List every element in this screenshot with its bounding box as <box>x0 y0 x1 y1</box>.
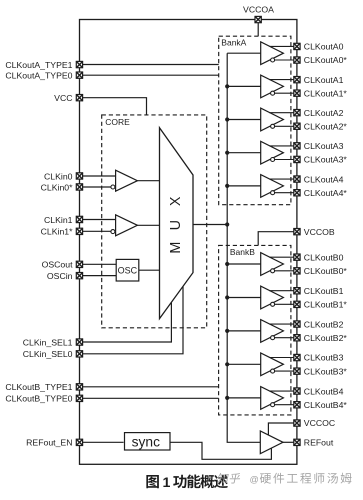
svg-text:CLKoutB4*: CLKoutB4* <box>304 400 348 410</box>
wire A0 inverted output <box>275 59 294 61</box>
svg-text:CLKoutB0: CLKoutB0 <box>304 252 344 262</box>
pin CLKin0* <box>76 184 82 190</box>
junction tap B3 <box>225 362 229 366</box>
wire OSCout <box>80 263 117 265</box>
svg-text:VCCOC: VCCOC <box>304 418 335 428</box>
inverting bubble A0* <box>271 58 275 62</box>
svg-text:REFout: REFout <box>304 438 334 448</box>
BankA block (dashed) <box>219 36 291 205</box>
wire VCCOB to BankB <box>258 232 294 246</box>
wire VCCOA to BankA <box>257 23 259 37</box>
svg-text:CLKoutA0: CLKoutA0 <box>304 42 344 52</box>
pin REFout_EN <box>76 439 82 445</box>
pin CLKin_SEL0 <box>76 351 82 357</box>
pin CLKoutA0* <box>294 57 300 63</box>
svg-text:X: X <box>168 196 184 206</box>
wire input tap buffer A3 <box>227 152 261 154</box>
wire CLKin0 <box>80 175 116 177</box>
CORE block (dashed) <box>102 115 207 328</box>
wire OSC out to MUX <box>139 269 160 271</box>
caption: 图 1 功能概述 <box>146 474 227 490</box>
inverting bubble A4* <box>271 191 275 195</box>
svg-text:CLKoutB0*: CLKoutB0* <box>304 266 348 276</box>
svg-text:CLKoutB1*: CLKoutB1* <box>304 300 348 310</box>
pin OSCout <box>76 261 82 267</box>
wire A4 inverted output <box>275 192 294 194</box>
svg-text:CLKoutA1*: CLKoutA1* <box>304 88 348 98</box>
pin CLKoutA1 <box>294 77 300 83</box>
svg-text:CLKoutB2: CLKoutB2 <box>304 319 344 329</box>
svg-text:CLKoutA3*: CLKoutA3* <box>304 155 348 165</box>
wire input tap buffer B0 <box>227 263 261 265</box>
output buffer B0 <box>261 253 284 276</box>
wire CLKoutB_TYPE1 to BankB <box>80 386 219 388</box>
pin CLKoutB3* <box>294 368 300 374</box>
svg-text:BankB: BankB <box>230 247 255 257</box>
svg-text:CLKoutB1: CLKoutB1 <box>304 286 344 296</box>
wire REFout buffer to pin <box>283 441 294 443</box>
svg-text:OSC: OSC <box>118 266 138 276</box>
output buffer A4 <box>261 175 284 198</box>
pin REFout <box>294 439 300 445</box>
output buffer A0 <box>261 42 284 65</box>
inverting bubble CLKin1* <box>111 230 115 234</box>
inverting bubble CLKin0* <box>111 185 115 189</box>
svg-text:CLKoutA4*: CLKoutA4* <box>304 188 348 198</box>
svg-text:VCCOA: VCCOA <box>243 4 274 14</box>
svg-text:OSCin: OSCin <box>47 271 73 281</box>
wire input tap buffer B3 <box>227 363 261 365</box>
junction tap A4 <box>225 184 229 188</box>
svg-text:U: U <box>168 220 184 230</box>
pin CLKoutB0 <box>294 254 300 260</box>
wire input tap buffer A4 <box>227 185 261 187</box>
wire VCCOC to REFout buffer <box>268 423 293 435</box>
svg-text:CLKin_SEL0: CLKin_SEL0 <box>23 349 73 359</box>
svg-text:CLKin1*: CLKin1* <box>41 227 73 237</box>
wire CLKin1* <box>80 230 112 232</box>
pin CLKoutB_TYPE0 <box>76 395 82 401</box>
wire A0 true output <box>269 45 293 47</box>
svg-text:CLKin0*: CLKin0* <box>41 182 73 192</box>
svg-text:CLKoutA2: CLKoutA2 <box>304 108 344 118</box>
pin CLKoutB0* <box>294 268 300 274</box>
output buffer B1 <box>261 286 284 309</box>
sync block <box>125 433 171 450</box>
pin CLKoutB1 <box>294 288 300 294</box>
svg-text:CLKoutB2*: CLKoutB2* <box>304 333 348 343</box>
junction tap B4 <box>225 396 229 400</box>
inverting bubble A3* <box>271 158 275 162</box>
wire input tap buffer A1 <box>227 85 261 87</box>
pin CLKin1* <box>76 228 82 234</box>
svg-text:REFout_EN: REFout_EN <box>26 438 72 448</box>
svg-text:M: M <box>168 242 184 254</box>
pin CLKin_SEL1 <box>76 339 82 345</box>
pin CLKoutA4 <box>294 176 300 182</box>
svg-text:CLKin_SEL1: CLKin_SEL1 <box>23 337 73 347</box>
inverting bubble A1* <box>271 91 275 95</box>
junction tap B0 <box>225 262 229 266</box>
output buffer A1 <box>261 75 284 98</box>
pin CLKoutA2 <box>294 110 300 116</box>
wire B3 inverted output <box>275 370 294 372</box>
wire VCC to CORE <box>80 98 147 115</box>
wire buffer1 out to MUX <box>137 224 159 226</box>
wire input tap buffer A2 <box>227 119 261 121</box>
wire A1 true output <box>269 79 293 81</box>
svg-text:1: 1 <box>163 475 171 491</box>
output buffer B3 <box>261 353 284 376</box>
BankB block (dashed) <box>219 245 291 415</box>
output buffer B4 <box>261 387 284 410</box>
output buffer B2 <box>261 320 284 343</box>
pin CLKoutB1* <box>294 301 300 307</box>
wire REFout_EN to sync <box>80 441 124 443</box>
wire CLKin1 <box>80 219 116 221</box>
pin VCCOC <box>294 420 300 426</box>
svg-text:CLKoutB_TYPE1: CLKoutB_TYPE1 <box>5 382 72 392</box>
wire A2 inverted output <box>275 125 294 127</box>
inverting bubble A2* <box>271 124 275 128</box>
wire B0 true output <box>269 256 293 258</box>
wire A4 true output <box>269 178 293 180</box>
wire B2 true output <box>269 323 293 325</box>
wire CLKin_SEL1 to MUX <box>80 302 172 342</box>
inverting bubble B1* <box>271 302 275 306</box>
junction tap B2 <box>225 329 229 333</box>
wire input tap buffer A0 <box>227 52 261 54</box>
junction tap B1 <box>225 295 229 299</box>
svg-text:VCC: VCC <box>54 93 72 103</box>
wire A3 true output <box>269 145 293 147</box>
output buffer A2 <box>261 108 284 131</box>
wire CLKoutA_TYPE1 to BankA <box>80 64 219 66</box>
wire CLKin_SEL0 to MUX <box>80 286 184 353</box>
wire B2 inverted output <box>275 337 294 339</box>
svg-text:CLKoutB3: CLKoutB3 <box>304 353 344 363</box>
wire CLKoutA_TYPE0 to BankA <box>80 74 219 76</box>
inverting bubble B4* <box>271 403 275 407</box>
wire B0 inverted output <box>275 270 294 272</box>
pin VCCOA <box>255 16 261 22</box>
svg-text:CLKoutA0*: CLKoutA0* <box>304 55 348 65</box>
junction MUX output <box>225 222 229 226</box>
svg-text:CLKin0: CLKin0 <box>44 171 73 181</box>
svg-text:CLKoutB_TYPE0: CLKoutB_TYPE0 <box>5 394 72 404</box>
watermark: 知乎 @硬件工程师汤姆 <box>217 473 352 485</box>
wire CLKoutB_TYPE0 to BankB <box>80 397 219 399</box>
svg-text:OSCout: OSCout <box>42 260 73 270</box>
pin CLKoutA2* <box>294 123 300 129</box>
output buffer A3 <box>261 141 284 164</box>
wire B4 true output <box>269 390 293 392</box>
svg-text:CLKoutA1: CLKoutA1 <box>304 75 344 85</box>
wire OSCin <box>80 275 117 277</box>
wire input tap buffer B4 <box>227 397 261 399</box>
wire CLKin0* <box>80 186 112 188</box>
wire B1 true output <box>269 290 293 292</box>
svg-text:CORE: CORE <box>105 117 130 127</box>
pin CLKoutA1* <box>294 90 300 96</box>
wire B3 true output <box>269 357 293 359</box>
svg-text:CLKoutA_TYPE1: CLKoutA_TYPE1 <box>5 60 72 70</box>
svg-text:CLKoutB4: CLKoutB4 <box>304 386 344 396</box>
pin CLKoutA4* <box>294 190 300 196</box>
input buffer CLKin0 <box>116 170 138 191</box>
inverting bubble B2* <box>271 336 275 340</box>
svg-text:CLKin1: CLKin1 <box>44 215 73 225</box>
pin CLKin1 <box>76 216 82 222</box>
OSC block <box>116 259 139 281</box>
inverting bubble B0* <box>271 269 275 273</box>
svg-text:CLKoutA3: CLKoutA3 <box>304 141 344 151</box>
pin CLKoutA3 <box>294 143 300 149</box>
junction tap A2 <box>225 117 229 121</box>
wire A2 true output <box>269 112 293 114</box>
svg-text:CLKoutA2*: CLKoutA2* <box>304 122 348 132</box>
svg-text:VCCOB: VCCOB <box>304 227 335 237</box>
wire clock distribution bus <box>227 53 260 442</box>
REFout buffer <box>260 431 283 454</box>
input buffer CLKin1 <box>116 215 138 236</box>
pin CLKoutA0 <box>294 43 300 49</box>
pin VCCOB <box>294 229 300 235</box>
svg-text:BankA: BankA <box>221 38 246 48</box>
wire A1 inverted output <box>275 92 294 94</box>
pin CLKoutB2* <box>294 335 300 341</box>
pin VCC <box>76 95 82 101</box>
junction tap A1 <box>225 84 229 88</box>
wire input tap buffer B1 <box>227 297 261 299</box>
pin OSCin <box>76 273 82 279</box>
chip outline <box>80 20 297 465</box>
junction tap A3 <box>225 151 229 155</box>
wire A3 inverted output <box>275 159 294 161</box>
wire B1 inverted output <box>275 303 294 305</box>
svg-text:CLKoutA4: CLKoutA4 <box>304 174 344 184</box>
pin CLKoutB_TYPE1 <box>76 384 82 390</box>
pin CLKoutA_TYPE1 <box>76 61 82 67</box>
wire buffer0 out to MUX <box>137 180 159 182</box>
svg-text:@: @ <box>250 475 259 485</box>
MUX <box>160 128 194 319</box>
pin CLKoutB4* <box>294 402 300 408</box>
pin CLKoutA3* <box>294 156 300 162</box>
wire MUX output to distribution node <box>193 224 227 226</box>
pin CLKoutB2 <box>294 321 300 327</box>
pin CLKoutA_TYPE0 <box>76 72 82 78</box>
pin CLKoutB4 <box>294 388 300 394</box>
svg-text:sync: sync <box>132 434 160 449</box>
pin CLKoutB3 <box>294 354 300 360</box>
wire B4 inverted output <box>275 404 294 406</box>
inverting bubble B3* <box>271 369 275 373</box>
wire input tap buffer B2 <box>227 330 261 332</box>
svg-text:CLKoutA_TYPE0: CLKoutA_TYPE0 <box>5 71 72 81</box>
pin CLKin0 <box>76 173 82 179</box>
svg-text:CLKoutB3*: CLKoutB3* <box>304 366 348 376</box>
wire sync to REFout buffer <box>170 442 272 459</box>
